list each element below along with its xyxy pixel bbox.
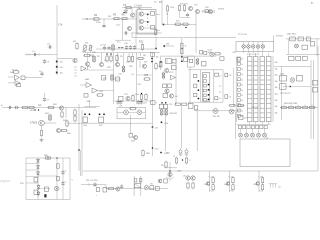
- label m10: [205, 7, 210, 9]
- label lc9: [241, 105, 243, 107]
- label c23: [135, 94, 140, 96]
- bar 2 seg 10: [260, 107, 265, 109]
- svg-text:10k: 10k: [85, 43, 88, 45]
- label G1: [38, 104, 42, 107]
- resistor R87: [185, 157, 187, 165]
- capacitor C22a: [116, 100, 119, 105]
- wire c13: [123, 53, 125, 65]
- capacitor C1: [33, 53, 38, 56]
- capacitor C21: [14, 106, 19, 109]
- transistor Q12: [251, 45, 255, 49]
- wire c3: [87, 66, 89, 70]
- component LC2: [237, 67, 240, 70]
- svg-text:+24V: +24V: [164, 123, 169, 125]
- resistor R7: [125, 6, 133, 8]
- resistor R35: [122, 65, 125, 73]
- transistor QB4: [263, 133, 267, 137]
- capacitor C52: [93, 182, 96, 187]
- wire q11 up: [247, 42, 249, 45]
- component RG8: [303, 56, 308, 60]
- label v127: [155, 128, 159, 130]
- wire leadin a: [82, 18, 85, 20]
- bar 1 seg 6: [254, 88, 259, 90]
- resistor R37: [131, 55, 133, 63]
- resistor RS0a: [212, 176, 214, 184]
- svg-text:R31: R31: [166, 43, 169, 45]
- bar 3 seg 7: [267, 93, 272, 95]
- svg-text:C21: C21: [119, 106, 122, 108]
- junction r87: [182, 159, 183, 160]
- resistor R12: [141, 43, 143, 51]
- bar 2 seg 6: [260, 88, 265, 90]
- wire c4 up: [44, 93, 46, 97]
- svg-text:1k: 1k: [241, 111, 243, 113]
- junction m: [141, 101, 142, 102]
- wire dash row: [118, 47, 124, 49]
- transistor VT1: [73, 58, 77, 62]
- resistor R61: [28, 106, 36, 108]
- transistor VT21: [126, 96, 130, 100]
- label b1: [86, 180, 97, 182]
- label m11: [311, 2, 314, 5]
- resistor R85: [142, 149, 144, 157]
- label c22: [124, 94, 129, 96]
- resistor R64: [49, 114, 52, 122]
- component R29: [313, 88, 318, 93]
- wire bl v3: [56, 158, 58, 200]
- label m19: [30, 110, 35, 112]
- label cc2: [107, 67, 112, 69]
- wire qb3: [258, 129, 260, 133]
- wire c7: [132, 53, 134, 55]
- wire v190: [189, 67, 191, 104]
- transistor VT7: [188, 6, 192, 10]
- pin dot L1: [198, 80, 200, 82]
- svg-text:C9: C9: [229, 97, 231, 99]
- label r1c3: [12, 70, 17, 72]
- transistor VT6: [127, 26, 131, 30]
- label c14: [97, 56, 101, 58]
- wire box top tick: [273, 36, 275, 42]
- component RG4: [302, 45, 308, 49]
- junction r: [78, 149, 79, 150]
- label c19: [131, 74, 135, 76]
- transistor VT17: [85, 62, 89, 66]
- bar 2 seg 1: [260, 65, 265, 67]
- svg-text:KT805: KT805: [30, 122, 38, 125]
- capacitor C8: [103, 46, 106, 51]
- label D1: [154, 2, 157, 4]
- wire leadin b: [89, 18, 93, 20]
- bar 1 seg 12: [254, 117, 259, 119]
- component K6: [168, 84, 172, 88]
- component K7: [163, 94, 168, 98]
- resistor M2: [111, 74, 114, 82]
- wire long bus: [132, 37, 236, 39]
- label 17k: [58, 23, 63, 27]
- wire dash v233: [233, 68, 235, 106]
- label T group b: [276, 36, 284, 38]
- transistor VT30: [59, 106, 63, 110]
- wire qb2: [252, 129, 254, 133]
- resistor R62: [47, 106, 55, 108]
- junction y: [160, 152, 161, 153]
- wire vs1 stem: [228, 171, 230, 192]
- bar 0 seg 9: [248, 103, 253, 105]
- label cc6: [137, 84, 142, 86]
- wire reg v2: [316, 39, 318, 56]
- wire in2: [8, 82, 15, 84]
- IC DD1 pin 0: [203, 75, 206, 78]
- bar 2 seg 0: [260, 60, 265, 62]
- wire bl v1: [25, 158, 27, 200]
- wire q11 dn: [247, 48, 249, 53]
- bar 3 seg 4: [267, 79, 272, 81]
- component LC5: [237, 83, 240, 86]
- label x1: [174, 153, 176, 155]
- wire fb: [25, 77, 42, 79]
- svg-text:100k: 100k: [96, 22, 100, 24]
- wire c11: [98, 90, 114, 92]
- label pc2: [219, 86, 221, 88]
- label c43: [72, 180, 74, 182]
- svg-text:1k: 1k: [241, 95, 243, 97]
- bar 3 seg 12: [267, 117, 272, 119]
- wire frame v3: [222, 70, 224, 102]
- label rz: [169, 104, 172, 106]
- connector X2: [185, 148, 189, 155]
- svg-text:D7: D7: [159, 0, 163, 4]
- junction s2: [89, 114, 91, 116]
- wire rt tick 0: [283, 105, 285, 108]
- label lc4: [241, 79, 243, 81]
- wire v152: [152, 53, 154, 104]
- resistor R34: [116, 54, 118, 62]
- label m6b: [156, 57, 159, 59]
- component B3: [184, 58, 188, 62]
- svg-text:+36V: +36V: [177, 171, 182, 173]
- wire v196 ext: [195, 38, 197, 54]
- bar 2 seg 4: [260, 79, 265, 81]
- label da1: [10, 71, 15, 74]
- wire u1 b: [144, 21, 150, 23]
- component S2: [139, 179, 142, 182]
- bar 1 seg 4: [254, 79, 259, 81]
- wire v176: [175, 58, 177, 104]
- ladder text 88: [275, 87, 278, 89]
- junction u5: [290, 86, 291, 87]
- label pc4: [219, 98, 221, 100]
- label vs1t: [228, 176, 229, 178]
- transistor VT36: [213, 109, 218, 114]
- junction d: [123, 12, 124, 13]
- component Q1b: [204, 51, 207, 54]
- wire drop 122: [121, 19, 123, 40]
- wire rs v281: [280, 66, 282, 120]
- wire bl v2: [37, 158, 39, 200]
- svg-text:1k: 1k: [241, 100, 243, 102]
- component S4: [150, 186, 154, 190]
- label R80: [44, 155, 49, 157]
- IC DD1 pin 3: [203, 89, 206, 92]
- resistor R76: [174, 103, 182, 105]
- label c41: [65, 170, 67, 172]
- transistor VS1: [226, 182, 230, 186]
- trimmer RP1: [83, 44, 87, 52]
- IC DD1 dot 1: [208, 89, 210, 91]
- wire v136b: [136, 53, 138, 104]
- wire bl rung6: [38, 188, 50, 190]
- transistor QB0: [239, 133, 243, 137]
- wire rt tick 1: [290, 105, 292, 108]
- resistor R57: [214, 53, 222, 55]
- label vt31: [30, 122, 38, 125]
- bar 3 lead up: [268, 53, 270, 57]
- resistor RS2a: [261, 176, 263, 184]
- resistor R86: [175, 157, 177, 165]
- power box: [236, 42, 274, 52]
- wire node bus: [25, 54, 57, 56]
- transistor VT22: [165, 68, 169, 72]
- component LC1: [237, 62, 240, 65]
- svg-text:C2 C3: C2 C3: [100, 45, 107, 47]
- label c42: [65, 181, 67, 183]
- transistor VT43: [168, 172, 172, 176]
- bar 0 seg 1: [248, 65, 253, 67]
- svg-text:10k: 10k: [204, 184, 207, 186]
- component LB2: [247, 125, 250, 128]
- diode VD2: [125, 9, 128, 15]
- label m20: [53, 104, 58, 106]
- IC DD1 dot 0: [208, 84, 210, 86]
- component B5: [189, 59, 192, 62]
- wire mid low: [67, 122, 153, 124]
- wire qb4: [264, 129, 266, 133]
- wire frame bottom: [188, 101, 223, 103]
- bar 1 seg 2: [254, 70, 259, 72]
- bar 3 seg 5: [267, 84, 272, 86]
- bar 1 lead up: [255, 53, 257, 57]
- svg-text:1k: 1k: [241, 59, 243, 61]
- wire reg rail1: [286, 38, 320, 40]
- wire vs2 stem: [258, 171, 260, 192]
- wire v318: [317, 46, 319, 171]
- wire c2: [101, 53, 103, 62]
- junction rail b: [56, 157, 57, 158]
- component LC10: [237, 109, 240, 112]
- label D7: [159, 0, 163, 4]
- bar 2 seg 8: [260, 98, 265, 100]
- capacitor C11: [129, 45, 132, 50]
- wire c9: [139, 61, 141, 68]
- label c23b: [143, 103, 146, 105]
- transistor QB1: [245, 133, 249, 137]
- label R5: [113, 13, 117, 16]
- junction z2: [165, 102, 166, 103]
- svg-text:47u: 47u: [117, 42, 120, 44]
- svg-text:R36: R36: [208, 52, 211, 54]
- wire qb1: [246, 129, 248, 133]
- wire bl rung2: [26, 169, 38, 171]
- IC DD1 dot 2: [208, 94, 210, 96]
- resistor R39: [143, 78, 151, 80]
- svg-text:+: +: [228, 176, 229, 178]
- component LB0: [238, 125, 241, 128]
- resistor R15: [178, 4, 180, 12]
- component K2: [17, 84, 21, 87]
- label lc8: [241, 100, 243, 102]
- label m8: [194, 5, 199, 7]
- label R6: [122, 13, 126, 16]
- label c24: [87, 67, 92, 69]
- label vs2t: [258, 176, 259, 178]
- label rb2: [99, 125, 102, 127]
- wire c1: [87, 53, 89, 62]
- wire r14 drop: [167, 13, 169, 25]
- capacitor C40: [44, 194, 46, 197]
- wire vs1 arm2: [229, 190, 233, 193]
- label t2: [138, 7, 143, 10]
- svg-text:+36V: +36V: [164, 152, 170, 155]
- junction row b: [122, 47, 123, 48]
- svg-text:R34 R35: R34 R35: [170, 113, 177, 115]
- capacitor C5b: [40, 71, 43, 76]
- component U1a: [151, 11, 155, 15]
- label c5b: [39, 71, 41, 73]
- label pc1: [219, 75, 221, 77]
- tick bus1: [26, 53, 28, 55]
- wire row: [96, 48, 156, 50]
- transistor VT16: [290, 78, 295, 83]
- bar 2 lead dn: [261, 122, 263, 125]
- op-amp DA8: [81, 66, 86, 71]
- wire low step: [105, 185, 107, 189]
- bar 0 seg 3: [248, 74, 253, 76]
- ladder text 107: [275, 106, 278, 108]
- wire h40: [115, 39, 131, 41]
- transistor VT4: [139, 19, 143, 23]
- transistor VT15: [295, 44, 299, 48]
- junction v182a: [181, 56, 182, 57]
- resistor R11: [112, 44, 115, 52]
- component RB3: [239, 116, 244, 120]
- component R82b: [57, 176, 60, 180]
- junction l: [141, 93, 142, 94]
- label bars a: [247, 54, 259, 56]
- resistor array bar 3: [267, 57, 272, 122]
- svg-text:VT16 KT817: VT16 KT817: [280, 93, 291, 95]
- component RZ2: [164, 104, 168, 108]
- label w: [164, 123, 169, 125]
- component K14: [45, 187, 49, 192]
- wire x170 h: [164, 167, 177, 169]
- wire jmp bar: [269, 183, 277, 185]
- svg-text:1n: 1n: [219, 98, 221, 100]
- svg-text:R1 C3: R1 C3: [12, 70, 17, 72]
- label r87: [189, 160, 191, 162]
- component R81b: [57, 164, 60, 168]
- component K16: [220, 57, 224, 61]
- component U3: [280, 76, 287, 82]
- wire bus2: [162, 24, 196, 26]
- wire v79: [78, 104, 80, 171]
- component S5: [155, 187, 159, 191]
- component LB6: [264, 125, 267, 128]
- transistor VS0: [206, 182, 210, 186]
- resistor R43: [145, 93, 147, 101]
- wire vt31 down: [41, 126, 43, 129]
- label lc5: [241, 85, 243, 87]
- resistor R3: [76, 42, 78, 50]
- resistor R30: [83, 54, 91, 56]
- svg-text:1n: 1n: [219, 75, 221, 77]
- wire r15 link: [179, 12, 181, 18]
- resistor R6: [121, 17, 129, 19]
- label R3: [73, 41, 77, 43]
- label lc11: [241, 116, 243, 118]
- wire bus y56: [161, 55, 216, 57]
- component RG1: [290, 37, 296, 41]
- component K8: [151, 101, 156, 105]
- svg-text:L1 5uH: L1 5uH: [134, 5, 142, 8]
- svg-text:10k: 10k: [275, 87, 278, 89]
- wire q14 up: [262, 42, 264, 45]
- label z3: [170, 113, 177, 115]
- svg-text:10k: 10k: [275, 75, 278, 77]
- wire jmp l1: [270, 184, 272, 188]
- label vt12: [208, 50, 213, 52]
- resistor RZ3: [160, 108, 163, 116]
- svg-text:C23: C23: [143, 103, 146, 105]
- component RB2: [99, 117, 104, 123]
- wire da feed: [80, 84, 86, 86]
- wire vb1: [133, 176, 135, 196]
- label t3: [147, 18, 149, 20]
- wire u1 inner: [138, 12, 140, 30]
- wire bl bottom: [26, 199, 70, 201]
- label x170b: [161, 165, 164, 167]
- wire v235: [234, 112, 236, 139]
- b1 tick: [166, 59, 168, 64]
- wire v168: [165, 109, 167, 152]
- svg-text:1k: 1k: [241, 85, 243, 87]
- bar 0 seg 10: [248, 107, 253, 109]
- resistor RT1: [287, 106, 295, 108]
- tick bus3: [38, 53, 40, 55]
- label r86: [174, 156, 176, 158]
- svg-text:VT22: VT22: [169, 72, 174, 74]
- label cc5: [144, 62, 149, 64]
- transistor VT31: [39, 120, 45, 126]
- svg-text:10k: 10k: [224, 184, 227, 186]
- junction g: [155, 48, 157, 50]
- junction f: [147, 21, 149, 23]
- resistor R42: [140, 93, 142, 101]
- bar 3 lead dn: [268, 122, 270, 125]
- junction v182b: [181, 61, 182, 62]
- label net: [134, 5, 142, 8]
- svg-text:1k: 1k: [241, 69, 243, 71]
- capacitor C14: [102, 24, 105, 29]
- resistor R60: [21, 106, 29, 108]
- component U4: [297, 76, 303, 82]
- svg-text:10k: 10k: [275, 106, 278, 108]
- resistor R70: [129, 108, 137, 110]
- wire vs2 arm1: [259, 176, 263, 177]
- svg-text:RF-02: RF-02: [252, 107, 259, 109]
- wire vs1 arm1: [229, 176, 233, 177]
- bar 3 seg 10: [267, 107, 272, 109]
